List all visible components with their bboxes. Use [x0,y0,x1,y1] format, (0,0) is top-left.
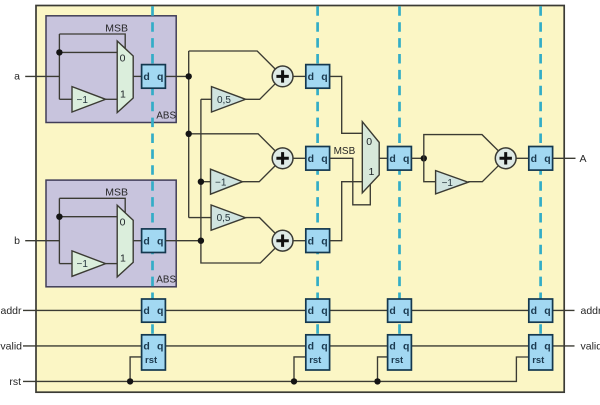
svg-text:d: d [389,341,395,353]
wire b to gain 0,5 (upper) [201,98,212,100]
svg-text:q: q [544,341,550,353]
node rst junction column 2 [291,378,297,384]
wire adder S3 output [293,240,306,242]
register d-q (stage3) [388,147,412,171]
svg-text:d: d [143,235,149,247]
svg-text:rst: rst [391,355,404,366]
register d-q (ABS2 stage1) [142,229,166,253]
svg-text:0: 0 [120,217,126,229]
mux (result selector) [362,122,379,193]
pipeline stage boundary (clock) dashed line 4 [539,6,542,369]
register d-q (stage2 row3) [306,229,330,253]
node rst junction column 3 [374,378,380,384]
svg-text:q: q [403,153,409,165]
svg-text:d: d [308,71,314,83]
svg-text:d: d [531,341,537,353]
ABS block ABS1 (abs of a) [46,16,176,123]
register d-q (addr stage2) [306,299,330,322]
gain 0,5 (upper) [212,87,246,112]
wire to gain -1 (output stage) [424,158,436,181]
svg-text:MSB: MSB [105,22,128,34]
svg-text:q: q [157,305,163,317]
svg-text:d: d [143,341,149,353]
wire adder S2 output [293,157,306,159]
wire b-path distribution vertical [200,99,202,240]
node ABS2 input branch junction [56,214,62,220]
mux (ABS1) [117,41,133,113]
register d-q with rst (valid stage2) [306,335,330,370]
svg-text:A: A [579,153,586,165]
wire stage3 register output [411,157,423,159]
svg-text:q: q [321,71,327,83]
svg-text:0: 0 [366,136,372,148]
register d-q (stage2 row1) [306,65,330,89]
node rst junction column 1 [127,378,133,384]
svg-text:−1: −1 [77,95,89,106]
svg-text:1: 1 [120,253,126,265]
svg-text:d: d [308,235,314,247]
gain -1 (output stage) [436,171,469,194]
svg-text:1: 1 [120,88,126,100]
wire ABS2 direct branch to mux input 0 [59,216,117,218]
mux (ABS2) [117,205,133,277]
svg-text:0,5: 0,5 [217,213,231,224]
node a branch to adder S2 [186,131,192,137]
wire row2 register MSB to mux select [330,158,371,205]
svg-text:q: q [157,71,163,83]
wire ABS2 mux output [133,240,141,242]
wire output A [553,157,576,159]
wire row3 register to mux input 1 [330,182,363,241]
gain -1 (middle) [211,169,243,194]
svg-text:0: 0 [120,52,126,64]
svg-text:rst: rst [9,376,21,388]
svg-text:q: q [321,153,327,165]
wire ABS2 branch vertical [58,198,60,263]
svg-text:−1: −1 [215,177,227,188]
register d-q with rst (valid stage3) [388,335,412,370]
wire ABS2 MSB select branch [59,198,125,213]
svg-text:q: q [321,305,327,317]
svg-text:q: q [544,305,550,317]
wire b to adder S3 lower input [201,241,275,263]
pipeline stage boundary (clock) dashed line 1 [151,6,154,369]
wire ABS1 negator output to mux input 1 [106,98,118,100]
svg-text:−1: −1 [442,178,454,189]
adder S3 (0,5a+b) [272,230,293,251]
adder S4 (output) [495,148,516,169]
svg-text:valid: valid [581,340,600,352]
register d-q (ABS1 stage1) [142,65,166,89]
svg-text:d: d [308,305,314,317]
adder S2 (a-b) [272,148,293,169]
svg-text:q: q [321,341,327,353]
wire rst stub column 2 [294,357,306,382]
svg-text:d: d [143,305,149,317]
wire adder S1 output [293,75,306,77]
svg-text:ABS: ABS [156,110,176,121]
svg-text:q: q [157,235,163,247]
svg-text:b: b [14,235,20,247]
svg-text:d: d [531,305,537,317]
svg-text:0,5: 0,5 [217,95,231,106]
svg-text:−1: −1 [77,259,89,270]
node a joins distribution [186,73,192,79]
svg-text:d: d [389,153,395,165]
wire a-path distribution vertical [188,51,190,218]
svg-text:q: q [321,235,327,247]
svg-text:d: d [531,153,537,165]
svg-text:1: 1 [369,166,375,178]
gain 0,5 (lower) [211,205,246,230]
svg-text:d: d [308,153,314,165]
wire input a [25,75,59,77]
wire input b [25,240,59,242]
svg-text:q: q [403,341,409,353]
svg-text:rst: rst [532,355,545,366]
register d-q (stage4) [529,147,553,171]
svg-text:d: d [143,71,149,83]
pipeline stage boundary (clock) dashed line 2 [316,6,319,369]
wire rst [23,357,529,381]
gain -1 negator (ABS2) [72,251,106,276]
adder S1 (a+0,5b) [272,66,293,87]
wire gain -1 output to adder S2 [243,166,276,182]
wire a to adder S1 upper input [189,51,276,69]
svg-text:MSB: MSB [105,187,128,199]
svg-text:rst: rst [309,355,322,366]
wire mux output [379,157,387,159]
wire ABS2 register output [165,240,201,242]
wire addr bus [23,309,575,311]
node ABS1 input branch junction [56,49,62,55]
wire ABS1 register output [165,75,188,77]
wire ABS1 branch to negator [59,98,72,100]
wire ABS1 mux output [133,75,141,77]
register d-q with rst (valid stage1) [142,335,166,370]
pipeline stage boundary (clock) dashed line 3 [398,6,401,369]
register d-q (addr stage3) [388,299,412,322]
register d-q (stage2 row2) [306,147,330,171]
node b branch to gain -1 [198,179,204,185]
wire rst stub column 1 [130,357,142,382]
wire ABS2 negator output to mux input 1 [106,263,118,265]
wire adder S4 output [516,157,529,159]
wire ABS2 branch to negator [59,263,72,265]
svg-text:MSB: MSB [334,146,356,157]
wire b to gain -1 (middle) [201,181,211,183]
svg-text:q: q [157,341,163,353]
wire a to adder S2 upper input [189,134,276,151]
wire row1 register to mux input 0 [330,76,363,133]
wire to adder S4 upper input [424,135,499,159]
wire gain 0,5 lower output to adder S3 [246,218,276,234]
wire ABS1 branch vertical [58,34,60,99]
register d-q with rst (valid stage4) [529,335,553,370]
wire gain -1 output to adder S4 [468,166,498,182]
svg-text:q: q [403,305,409,317]
wire ABS1 direct branch to mux input 0 [59,51,117,53]
node b joins distribution [198,238,204,244]
svg-text:ABS: ABS [156,275,176,286]
wire valid [23,345,575,347]
svg-text:q: q [544,153,550,165]
svg-text:a: a [14,71,20,83]
wire gain 0,5 upper output to adder S1 [246,84,276,100]
wire a to gain 0,5 (lower) [189,217,211,219]
wire ABS1 MSB select branch [59,34,125,49]
node stage3 output split [421,155,427,161]
svg-text:d: d [308,341,314,353]
gain -1 negator (ABS1) [72,87,106,112]
register d-q (addr stage4) [529,299,553,322]
register d-q (addr stage1) [142,299,166,322]
ABS block ABS2 (abs of b) [46,180,176,287]
svg-text:d: d [389,305,395,317]
wire rst stub column 3 [378,357,388,382]
svg-text:addr: addr [581,305,600,317]
svg-text:addr: addr [0,305,22,317]
svg-text:rst: rst [145,355,158,366]
svg-text:valid: valid [0,340,22,352]
